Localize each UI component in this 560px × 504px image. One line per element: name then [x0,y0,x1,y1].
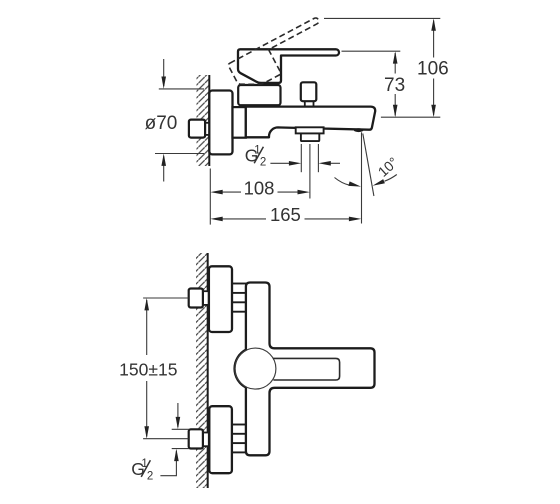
extension line from solid lever tip (73 top reference) [342,50,401,52]
wall line (side view) [208,75,210,166]
aerator at spout tip (side view) [354,128,364,132]
cartridge cap (side view) [238,85,280,105]
dimension 106 line with arrows [431,18,436,117]
svg-text:10°: 10° [375,154,401,180]
svg-text:2: 2 [260,157,266,169]
150 lower extension line [143,438,188,440]
svg-text:165: 165 [270,204,301,225]
upper wall flange (plan view) [209,266,232,332]
svg-text:150±15: 150±15 [119,359,177,379]
dimension ø70 lower arrow (pointing up) [161,154,166,182]
G1/2 outlet extension line left (side view) [300,144,302,172]
wall flange ø70 (side view) [209,91,232,155]
G1/2 left arrow (side view) [270,161,301,166]
dimension ø70 top extension line [159,88,204,90]
G1/2 lower extension line (plan view) [172,448,189,450]
svg-text:108: 108 [244,178,275,199]
150 upper extension line [143,297,188,299]
dimension 108 line with arrows [210,190,310,195]
handle in raised position (dashed, side view) [228,17,333,94]
10 degree stream line [363,134,374,197]
outlet block G1/2 (side view) [301,133,319,141]
svg-text:ø70: ø70 [145,113,178,134]
inlet nut G1/2 (side view) [189,120,205,138]
diverter knob neck (side view) [305,98,314,107]
wall hatching (plan view) [196,253,208,488]
lower inlet collar (plan view) [203,433,209,447]
dimension ø70 upper arrow (pointing down) [161,59,166,89]
dimension 73 line with arrows [393,51,398,117]
svg-text:2: 2 [147,470,153,482]
lower wall flange (plan view) [209,406,232,473]
wall extension line for 108/165 (side view) [209,169,211,225]
outlet centre extension line (side view) [309,144,311,199]
dimension label G1/2 (plan view) [131,458,153,482]
wall line (plan view) [207,253,209,488]
handle lever and grip (solid, side view) [238,49,339,83]
upper inlet collar (plan view) [203,291,209,305]
neck between flange and body (side view) [233,107,246,138]
svg-text:1: 1 [141,458,147,470]
G1/2 down arrow (plan view) [176,403,181,429]
dimension 150 +/- 15 line with arrows [144,298,149,439]
G1/2 outlet extension line right (side view) [317,144,319,172]
dimension label G1/2 (side view) [245,145,267,169]
inlet collar through wall (side view) [205,123,210,135]
outlet lip under spout (side view) [296,127,324,133]
G1/2 right arrow (side view) [318,161,340,166]
diverter knob (side view) [301,82,317,101]
lower thread lines (plan view) [232,425,246,453]
mixer body and spout (side view) [246,107,375,138]
G1/2 upper extension line (plan view) [172,428,189,430]
svg-text:106: 106 [417,59,449,80]
lower inlet nut (plan view) [189,429,203,448]
dimension 165 line with arrows [210,217,361,222]
svg-text:73: 73 [384,75,405,96]
G1/2 leader with up arrow (plan view) [160,449,178,476]
dimension ø70 bottom extension line [155,153,205,155]
spout tip vertical extension line [361,132,363,223]
handle cap circle (plan view) [235,348,276,389]
10 degree left arc with arrow [335,178,362,187]
upper thread lines (plan view) [232,284,246,312]
lever outline (plan view) [273,358,340,380]
bottom reference extension line for 73/106 [381,116,440,118]
extension line from dashed handle tip (106 top reference) [324,17,440,19]
wall hatching (side view) [197,75,210,166]
mixer body bar and spout (plan view) [235,283,375,456]
upper inlet nut (plan view) [189,289,203,308]
10 degree right arc with arrow [373,175,397,186]
